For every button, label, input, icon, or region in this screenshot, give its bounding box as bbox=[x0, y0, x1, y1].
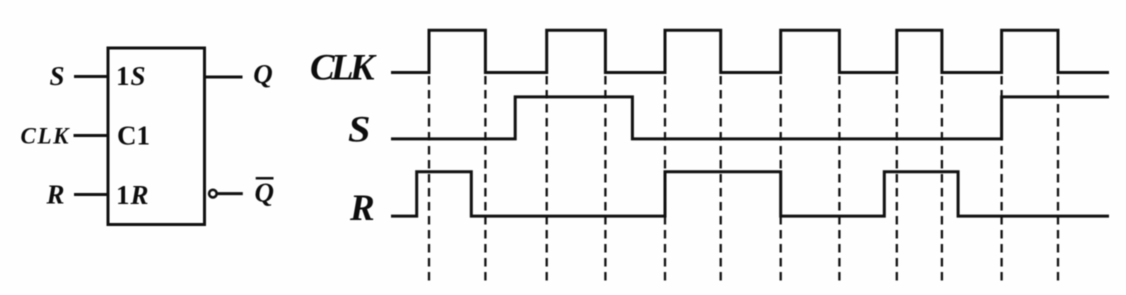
overline of Q-bar bbox=[256, 177, 274, 180]
svg-text:Q: Q bbox=[253, 59, 273, 89]
clock edge dashed line 9 bbox=[896, 76, 898, 281]
svg-text:C1: C1 bbox=[117, 120, 150, 150]
svg-text:CLK: CLK bbox=[310, 47, 377, 88]
clock edge dashed line 8 bbox=[838, 76, 840, 281]
wire S input bbox=[74, 75, 109, 78]
waveform R bbox=[391, 172, 1109, 216]
clock edge dashed line 1 bbox=[428, 76, 430, 281]
clock edge dashed line 5 bbox=[664, 76, 666, 281]
clock edge dashed line 7 bbox=[780, 76, 782, 281]
inversion bubble on Q-bar output bbox=[209, 190, 217, 198]
clock edge dashed line 11 bbox=[1000, 76, 1002, 281]
svg-text:S: S bbox=[49, 61, 64, 91]
clock edge dashed line 12 bbox=[1057, 76, 1059, 281]
clock edge dashed line 2 bbox=[484, 76, 486, 281]
clock edge dashed line 4 bbox=[604, 76, 606, 281]
wire Q-bar output bbox=[218, 192, 243, 195]
svg-text:1R: 1R bbox=[116, 180, 150, 210]
wire Q output bbox=[204, 76, 243, 79]
wire R input bbox=[74, 193, 109, 196]
waveform S bbox=[391, 97, 1109, 139]
waveform CLK bbox=[391, 30, 1109, 72]
clock edge dashed line 3 bbox=[546, 76, 548, 281]
svg-text:CLK: CLK bbox=[21, 123, 71, 148]
clock edge dashed line 6 bbox=[720, 76, 722, 281]
svg-text:R: R bbox=[349, 188, 375, 229]
svg-text:S: S bbox=[348, 110, 371, 151]
flip-flop U1 body bbox=[108, 48, 205, 225]
svg-text:1S: 1S bbox=[116, 61, 147, 91]
svg-text:Q: Q bbox=[255, 178, 275, 208]
clock edge dashed line 10 bbox=[941, 76, 943, 281]
svg-text:R: R bbox=[45, 179, 64, 209]
wire CLK input bbox=[74, 134, 110, 137]
